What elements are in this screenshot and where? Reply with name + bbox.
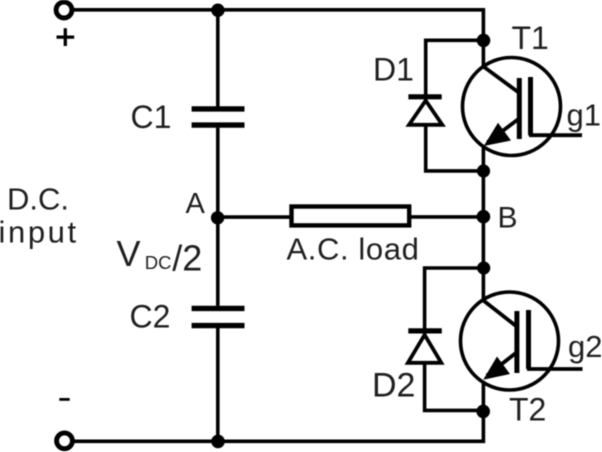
capacitor C2 [192, 308, 245, 325]
svg-text:C1: C1 [131, 99, 172, 135]
svg-text:T1: T1 [512, 20, 549, 56]
diode D2 [408, 331, 442, 363]
transistor T2 [461, 292, 583, 390]
svg-text:T2: T2 [509, 392, 546, 428]
node D1 bottom junction [477, 164, 490, 177]
wire mid rail upper [216, 10, 220, 107]
node bottom junction [211, 435, 225, 449]
svg-text:g2: g2 [568, 329, 602, 364]
svg-text:D.C.: D.C. [7, 182, 69, 217]
wire D1 top branch [426, 40, 482, 103]
wire D1 bottom branch [426, 125, 482, 171]
wire A to load [218, 215, 291, 219]
node B [477, 210, 491, 224]
node A [211, 211, 224, 224]
svg-text:D1: D1 [373, 52, 414, 88]
svg-text:B: B [498, 201, 518, 234]
svg-text:A: A [186, 188, 206, 220]
transistor T1 [463, 58, 583, 156]
svg-text:g1: g1 [567, 98, 601, 133]
minus symbol [59, 398, 69, 401]
wire bottom rail [75, 381, 484, 441]
terminal minus [57, 433, 73, 449]
svg-text:C2: C2 [130, 299, 171, 335]
wire right rail middle [482, 146, 486, 301]
wire load to B [409, 215, 483, 219]
node D2 top junction [477, 261, 490, 274]
svg-text:D2: D2 [372, 367, 415, 405]
diode D1 [408, 97, 442, 125]
plus symbol [57, 28, 75, 46]
wire D2 top branch [425, 268, 482, 337]
node top junction [211, 4, 224, 17]
wire D2 bottom branch [425, 363, 482, 411]
terminal plus [56, 2, 72, 18]
capacitor C1 [192, 109, 245, 125]
wire mid rail middle [216, 128, 220, 306]
node D1 top junction [477, 34, 491, 48]
svg-text:input: input [0, 214, 79, 249]
node D2 bottom junction [476, 405, 490, 419]
resistor A.C. load box [292, 207, 410, 226]
wire mid rail lower [216, 328, 220, 441]
wire top rail [74, 10, 483, 68]
svg-text:A.C. load: A.C. load [287, 232, 420, 267]
